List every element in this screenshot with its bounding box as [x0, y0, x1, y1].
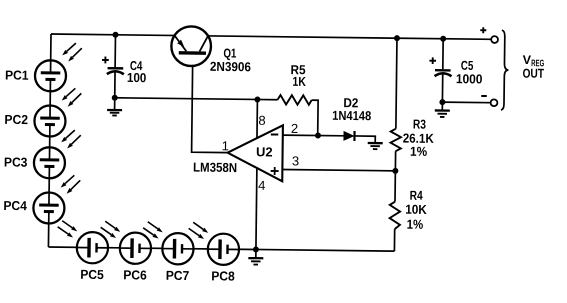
photocell PC5 — [77, 232, 109, 264]
wire ground line C4 to R5 — [115, 98, 278, 100]
C4 plus sign — [102, 57, 109, 64]
svg-text:10K: 10K — [405, 202, 427, 217]
photocell PC8 — [208, 234, 240, 266]
wire R5 right lead down to pin 2 node — [311, 100, 318, 135]
light arrows PC2 — [62, 88, 82, 107]
svg-text:2: 2 — [291, 121, 298, 136]
wire D2 cathode to ground stub — [354, 136, 375, 143]
node R3 top junction — [394, 35, 400, 41]
C5 plus sign — [429, 57, 436, 64]
ground at C4 — [107, 98, 122, 116]
svg-text:PC7: PC7 — [166, 268, 190, 283]
wire top rail (solar input to +Vreg terminal) — [51, 34, 491, 39]
ground at C5 — [435, 102, 450, 117]
node C4 top junction — [112, 32, 118, 38]
output terminal plus — [491, 36, 498, 43]
wire left column (PC1-PC4 series chain) — [48, 34, 51, 247]
wire Q1 base to op-amp output pin 1 — [192, 55, 229, 153]
resistor R4 — [389, 202, 400, 230]
svg-text:8: 8 — [258, 113, 265, 128]
svg-text:100: 100 — [127, 70, 147, 85]
svg-text:2N3906: 2N3906 — [210, 59, 251, 74]
transistor Q1 2N3906 — [171, 26, 211, 66]
light arrows PC6 — [101, 221, 121, 238]
wire bottom rail (PC5-PC8 chain to R4) — [48, 247, 394, 251]
node C4 bottom / ground junction — [112, 95, 118, 101]
output terminal minus — [491, 99, 498, 106]
wire op-amp pin 3 line to R3/R4 junction — [282, 169, 395, 170]
resistor R5 — [277, 95, 311, 105]
node pin 4 / bottom rail ground junction — [253, 246, 259, 252]
photocell PC1 — [35, 60, 66, 91]
light arrows PC1 — [62, 43, 82, 62]
svg-text:PC1: PC1 — [5, 67, 29, 82]
svg-text:1K: 1K — [292, 74, 306, 89]
wire C5 bottom lead — [441, 74, 443, 102]
resistor R3 — [390, 129, 401, 152]
svg-text:1000: 1000 — [456, 71, 483, 86]
capacitor C4 — [107, 35, 125, 98]
label VREG OUT — [522, 53, 544, 81]
wire C5 top lead — [442, 39, 444, 69]
svg-text:PC2: PC2 — [4, 112, 28, 127]
svg-text:1N4148: 1N4148 — [332, 108, 371, 123]
light arrows PC8 — [189, 222, 209, 239]
svg-text:1: 1 — [222, 138, 229, 153]
svg-text:LM358N: LM358N — [193, 160, 237, 176]
output brace — [501, 30, 509, 110]
photocell PC7 — [162, 233, 194, 265]
svg-text:R4: R4 — [410, 188, 424, 203]
svg-text:R3: R3 — [413, 117, 426, 132]
op-amp U2 LM358N — [227, 125, 283, 182]
svg-text:U2: U2 — [256, 144, 273, 159]
svg-text:4: 4 — [258, 178, 265, 193]
light arrows PC5 — [58, 221, 78, 238]
svg-text:PC4: PC4 — [3, 198, 27, 213]
capacitor C5 — [435, 69, 452, 76]
node C5 bottom / ground junction — [439, 99, 445, 105]
photocell PC4 — [33, 192, 64, 223]
light arrows PC7 — [143, 222, 163, 239]
photocell PC2 — [34, 105, 65, 136]
svg-text:PC8: PC8 — [211, 268, 235, 283]
node pin 8 supply junction — [254, 96, 260, 102]
svg-text:OUT: OUT — [522, 66, 544, 81]
photocell PC3 — [34, 147, 65, 178]
svg-text:PC5: PC5 — [80, 267, 104, 282]
svg-text:1%: 1% — [410, 144, 428, 159]
wire output minus line — [442, 101, 490, 104]
wire R4 top lead — [394, 171, 396, 202]
ground at D2 — [368, 143, 383, 149]
svg-text:3: 3 — [292, 153, 299, 168]
svg-text:1%: 1% — [407, 217, 424, 232]
node C5 top junction — [440, 36, 446, 42]
ground at pin 4 / bottom rail — [248, 249, 263, 264]
diode D2 1N4148 — [343, 131, 354, 141]
wire R3 bottom lead — [394, 151, 396, 171]
node R3/R4/pin 3 junction — [392, 168, 398, 174]
node pin 2 / R5 / D2 junction — [315, 132, 321, 138]
wire R4 bottom lead — [393, 229, 395, 251]
light arrows PC4 — [61, 175, 81, 194]
wire op-amp pin 4 drop to bottom rail — [255, 168, 258, 250]
minus sign at output terminal — [481, 95, 486, 97]
svg-text:PC3: PC3 — [4, 154, 28, 169]
svg-text:PC6: PC6 — [123, 267, 147, 282]
plus sign at output terminal — [480, 27, 486, 33]
wire op-amp pin 2 line to D2 — [283, 134, 344, 137]
wire R3 branch top lead — [396, 38, 397, 128]
wire op-amp pin 8 supply drop — [256, 99, 258, 138]
photocell PC6 — [120, 232, 152, 264]
light arrows PC3 — [61, 130, 81, 149]
